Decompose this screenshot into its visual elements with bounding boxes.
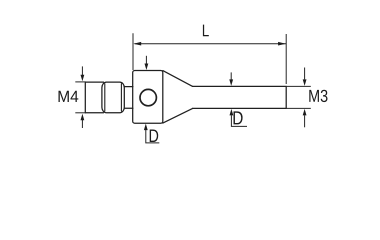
body D arrowhead down: [145, 64, 149, 71]
L extension line left: [132, 33, 134, 70]
collar (chamfered cylinder): [102, 82, 124, 113]
M4 arrowhead down: [81, 75, 85, 82]
cone taper top edge: [163, 71, 193, 87]
cross hole circle: [140, 89, 156, 105]
stem D arrowhead down: [229, 79, 233, 86]
L extension line right: [285, 34, 287, 84]
collar chamfer tangent line left: [104, 84, 106, 112]
M3 extension line bottom: [286, 107, 311, 109]
M3 arrowhead down: [303, 79, 307, 86]
stem D arrowhead up: [230, 109, 234, 116]
neck between collar and body: [124, 87, 133, 109]
M4 arrowhead up: [81, 114, 85, 121]
stem D dim leg bottom + underline: [231, 115, 247, 126]
collar chamfer tangent line right: [120, 84, 122, 112]
M3 dim leg top: [304, 68, 306, 80]
M4 dim leg top: [81, 66, 83, 75]
M4 dim leg bottom: [81, 120, 83, 128]
stem D dim leg top: [230, 72, 232, 80]
M4 threaded stud: [85, 82, 103, 113]
body D dim leg top: [145, 56, 147, 64]
M3 dim leg bottom: [304, 115, 306, 127]
stem (M3 shaft): [193, 86, 287, 108]
L dimension line: [135, 43, 287, 45]
L arrowhead right: [278, 42, 286, 46]
M3 extension line top: [286, 85, 311, 87]
label M4: [59, 91, 79, 102]
label D stem: [234, 111, 243, 124]
label L: [203, 25, 209, 37]
M4 extension line top: [75, 81, 86, 83]
label M3: [309, 90, 327, 102]
L arrowhead left: [133, 42, 141, 46]
cone taper bottom edge: [163, 108, 193, 123]
body D dim leg bottom + underline: [146, 130, 160, 143]
main body: [133, 71, 163, 124]
label D body: [150, 130, 159, 143]
M4 extension line bottom: [75, 112, 86, 114]
M3 arrowhead up: [303, 109, 307, 116]
body D arrowhead up: [144, 124, 148, 131]
